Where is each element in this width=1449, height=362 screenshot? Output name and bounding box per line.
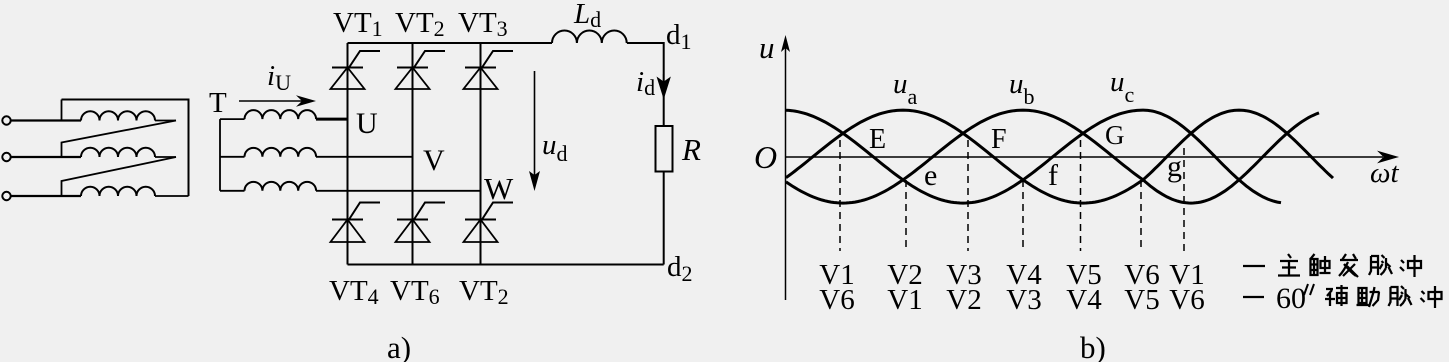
phase bus W (vertical)	[480, 43, 482, 265]
thyristor VT4	[331, 203, 381, 243]
wire phase U to bridge	[316, 118, 348, 121]
svg-text:a): a)	[387, 330, 411, 362]
svg-text:e: e	[924, 159, 937, 192]
top bus wire d1 side	[348, 42, 553, 44]
legend char mai2	[1389, 286, 1412, 306]
svg-text:b): b)	[1080, 330, 1106, 362]
svg-text:O: O	[754, 139, 777, 175]
svg-text:g: g	[1167, 150, 1182, 183]
legend line 1 dash	[1243, 265, 1265, 267]
primary winding coil 3	[81, 187, 189, 196]
primary winding coil 1	[81, 111, 176, 120]
primary terminal B	[2, 153, 10, 161]
legend char zhu3 (help)	[1357, 287, 1380, 307]
svg-text:V4: V4	[1066, 284, 1102, 316]
dashed line V2 commutation point	[905, 180, 907, 251]
legend double prime ticks	[1304, 284, 1314, 295]
wt axis (horizontal)	[786, 151, 1400, 164]
phase bus V (vertical)	[412, 43, 414, 265]
voltage arrow ud	[529, 71, 540, 191]
thyristor VT1	[331, 51, 381, 89]
legend char chong2	[1421, 286, 1442, 308]
svg-text:V1: V1	[887, 284, 922, 316]
current arrow id	[658, 74, 669, 97]
wire diagonal coil2 to coil3	[62, 157, 177, 196]
primary terminal A	[2, 116, 10, 124]
phase bus U (vertical)	[347, 43, 349, 265]
svg-text:V6: V6	[819, 284, 854, 316]
dashed line V3 commutation point	[967, 140, 969, 251]
wire phase A lead	[10, 119, 81, 121]
wire R to d2 corner	[663, 172, 665, 265]
dashed line V1 commutation point	[1183, 148, 1185, 251]
svg-text:U: U	[356, 107, 378, 140]
svg-text:V: V	[423, 144, 445, 177]
secondary winding W	[220, 182, 316, 191]
bottom bus wire d2 side	[348, 264, 664, 266]
svg-text:W: W	[484, 171, 514, 206]
svg-text:F: F	[991, 124, 1007, 155]
dashed line V4 commutation point	[1022, 180, 1024, 251]
svg-text:f: f	[1048, 159, 1058, 192]
inductor Ld	[552, 31, 627, 43]
svg-text:V5: V5	[1124, 284, 1159, 316]
dashed line V6 commutation point	[1140, 180, 1142, 251]
u axis (vertical)	[781, 35, 790, 300]
svg-text:V2: V2	[946, 284, 981, 316]
legend char zhu (main)	[1278, 254, 1300, 276]
primary terminal C	[2, 192, 10, 200]
secondary winding U	[220, 110, 316, 119]
current arrow iU	[239, 95, 316, 107]
legend char chong	[1400, 255, 1421, 277]
dashed line V5 commutation point	[1080, 140, 1082, 251]
thyristor VT6	[396, 203, 446, 243]
legend line 2 dash	[1243, 296, 1264, 298]
svg-text:60: 60	[1276, 282, 1306, 315]
primary winding coil 2	[81, 148, 176, 157]
wire Ld to d1 corner	[627, 43, 664, 126]
wire phase W to bridge	[316, 190, 481, 192]
secondary winding V	[220, 148, 316, 157]
svg-text:V3: V3	[1006, 284, 1041, 316]
svg-text:ωt: ωt	[1370, 157, 1399, 189]
resistor R	[656, 126, 673, 172]
dashed line V1 commutation point	[839, 140, 841, 251]
svg-text:V6: V6	[1169, 284, 1204, 316]
svg-text:u: u	[759, 30, 775, 65]
wire phase C lead	[10, 195, 81, 197]
wire phase V to bridge	[316, 156, 413, 158]
svg-text:T: T	[209, 87, 227, 119]
svg-text:G: G	[1105, 120, 1125, 150]
legend char mai	[1369, 255, 1392, 275]
sine curve ua	[786, 110, 1333, 203]
sine curve uc	[786, 110, 1281, 203]
svg-text:R: R	[681, 132, 701, 167]
thyristor VT2 bottom	[464, 203, 514, 243]
legend char fa	[1339, 254, 1358, 277]
wire secondary neutral	[219, 119, 221, 191]
wire delta loop (top edge + right edge)	[62, 100, 189, 197]
wire phase B lead	[10, 156, 81, 158]
legend char fu2	[1325, 285, 1348, 306]
thyristor VT3	[464, 51, 514, 89]
legend char chu	[1311, 254, 1331, 275]
thyristor VT2 top	[396, 51, 446, 89]
svg-text:E: E	[869, 124, 886, 155]
wire diagonal coil1 to coil2	[62, 121, 177, 158]
sine curve ub	[786, 110, 1319, 203]
